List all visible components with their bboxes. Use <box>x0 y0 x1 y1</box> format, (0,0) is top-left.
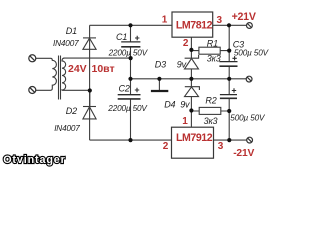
node ground <box>157 77 161 81</box>
svg-text:3к3: 3к3 <box>204 116 218 126</box>
wire R1 leads <box>191 50 229 52</box>
wire AC bottom <box>63 90 90 106</box>
wire 0V rail <box>131 78 247 80</box>
zener D3 <box>185 55 199 69</box>
svg-text:3: 3 <box>218 141 224 152</box>
svg-text:2: 2 <box>183 38 189 49</box>
terminal input top <box>29 55 36 62</box>
node C3 top <box>227 23 231 27</box>
terminal +21V <box>247 23 253 29</box>
transformer T1 primary <box>36 58 57 90</box>
node C2 bottom <box>128 138 132 142</box>
svg-text:LM7812: LM7812 <box>176 20 213 32</box>
zener D4 <box>185 87 200 97</box>
wire top rail left <box>90 24 172 26</box>
terminal 0V <box>246 76 252 82</box>
wire C3 branch <box>228 25 230 79</box>
svg-text:500µ 50V: 500µ 50V <box>230 113 266 122</box>
wire C1-C2 branch <box>130 25 132 140</box>
svg-text:1: 1 <box>162 15 168 26</box>
wire bottom rail <box>90 139 172 141</box>
wire AC top <box>64 57 131 59</box>
wire ground stub <box>158 79 160 90</box>
node C1 top <box>128 23 132 27</box>
plus C4 <box>232 88 236 92</box>
svg-text:2: 2 <box>163 141 169 152</box>
ground <box>151 90 168 92</box>
svg-text:3: 3 <box>217 15 223 26</box>
resistor R2 <box>199 107 221 114</box>
svg-text:D1: D1 <box>66 26 77 36</box>
svg-text:-21V: -21V <box>233 148 254 159</box>
node R1 C3 <box>227 49 231 53</box>
regulator U1 LM7812 <box>172 12 213 37</box>
regulator U2 LM7912 <box>172 127 214 158</box>
svg-text:24V: 24V <box>68 63 87 75</box>
svg-text:LM7912: LM7912 <box>176 132 213 144</box>
node D3 D4 <box>189 77 193 81</box>
node AC bottom <box>88 88 92 92</box>
svg-text:IN4007: IN4007 <box>53 39 79 48</box>
svg-text:R1: R1 <box>207 39 218 49</box>
diode D1 <box>83 38 96 49</box>
svg-text:C2: C2 <box>119 83 130 93</box>
wire vertical D1-D2 <box>89 25 91 140</box>
svg-text:10вт: 10вт <box>92 63 115 75</box>
plus C2 <box>135 88 139 92</box>
svg-text:2200µ 50V: 2200µ 50V <box>108 48 149 57</box>
svg-text:9v: 9v <box>180 99 190 109</box>
node pin3 7912 <box>227 138 231 142</box>
wire C4 branch <box>228 79 230 140</box>
svg-text:+21V: +21V <box>232 11 256 23</box>
wire pin3 7912 to -21V <box>214 139 247 141</box>
capacitor C1 <box>121 42 140 47</box>
svg-text:R2: R2 <box>205 95 216 105</box>
svg-text:C1: C1 <box>116 32 127 42</box>
svg-text:D4: D4 <box>164 99 175 109</box>
svg-text:3к3: 3к3 <box>207 54 221 64</box>
svg-text:1: 1 <box>182 116 188 127</box>
node pin2 R1 <box>189 48 193 52</box>
node D4 R2 <box>189 108 193 112</box>
transformer secondary <box>62 58 66 90</box>
wire pin2 zener chain <box>190 37 192 127</box>
svg-text:500µ 50V: 500µ 50V <box>234 49 270 58</box>
node AC top C1 <box>129 56 133 60</box>
svg-text:IN4007: IN4007 <box>54 124 80 133</box>
svg-text:D3: D3 <box>155 60 166 70</box>
node rail C1 C2 <box>128 77 132 81</box>
capacitor C4 <box>220 95 237 99</box>
capacitor C3 <box>219 62 237 67</box>
diode D2 <box>83 107 96 119</box>
svg-text:2200µ 50V: 2200µ 50V <box>107 104 148 113</box>
plus C3 <box>232 56 236 60</box>
svg-text:9v: 9v <box>177 60 187 70</box>
wire R2 leads <box>191 110 229 112</box>
terminal input bottom <box>29 87 36 94</box>
terminal -21V <box>247 137 253 143</box>
wire top rail right <box>213 24 247 26</box>
svg-text:D2: D2 <box>66 106 77 116</box>
capacitor C2 <box>118 95 141 99</box>
plus C1 <box>135 36 139 40</box>
resistor R1 <box>199 47 220 54</box>
svg-text:Otvintager: Otvintager <box>3 154 65 166</box>
transformer core <box>59 56 61 100</box>
node R2 C4 <box>227 109 231 113</box>
node rail C3 C4 <box>227 77 231 81</box>
